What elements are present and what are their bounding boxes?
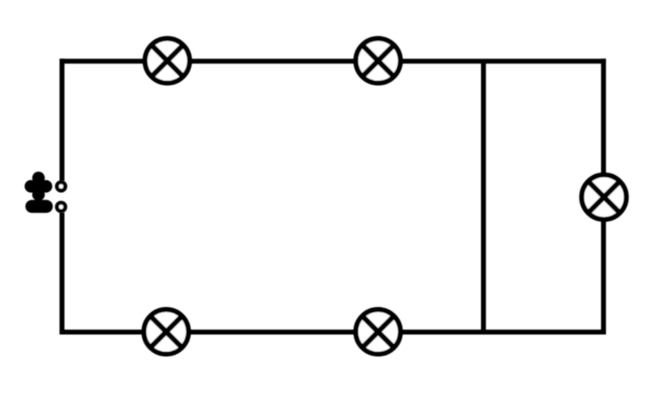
source terminal (+ pole, open circle) xyxy=(57,182,65,190)
lamp L3 (right side) xyxy=(582,175,627,220)
lamp L5 (bottom right) xyxy=(356,310,401,355)
wire: right vertical xyxy=(601,59,606,335)
wire: left vertical upper segment xyxy=(60,59,65,181)
polarity label - xyxy=(32,200,46,213)
wire: left vertical lower segment xyxy=(60,213,65,335)
lamp L1 (top left) xyxy=(145,39,190,84)
wire: top horizontal xyxy=(60,59,606,64)
wire: middle vertical branch xyxy=(481,61,486,332)
polarity label + xyxy=(25,172,53,201)
source terminal (- pole, open circle) xyxy=(57,203,65,211)
lamp L4 (bottom left) xyxy=(144,310,189,355)
lamp L2 (top right) xyxy=(356,39,401,84)
wire: bottom horizontal xyxy=(60,330,606,335)
